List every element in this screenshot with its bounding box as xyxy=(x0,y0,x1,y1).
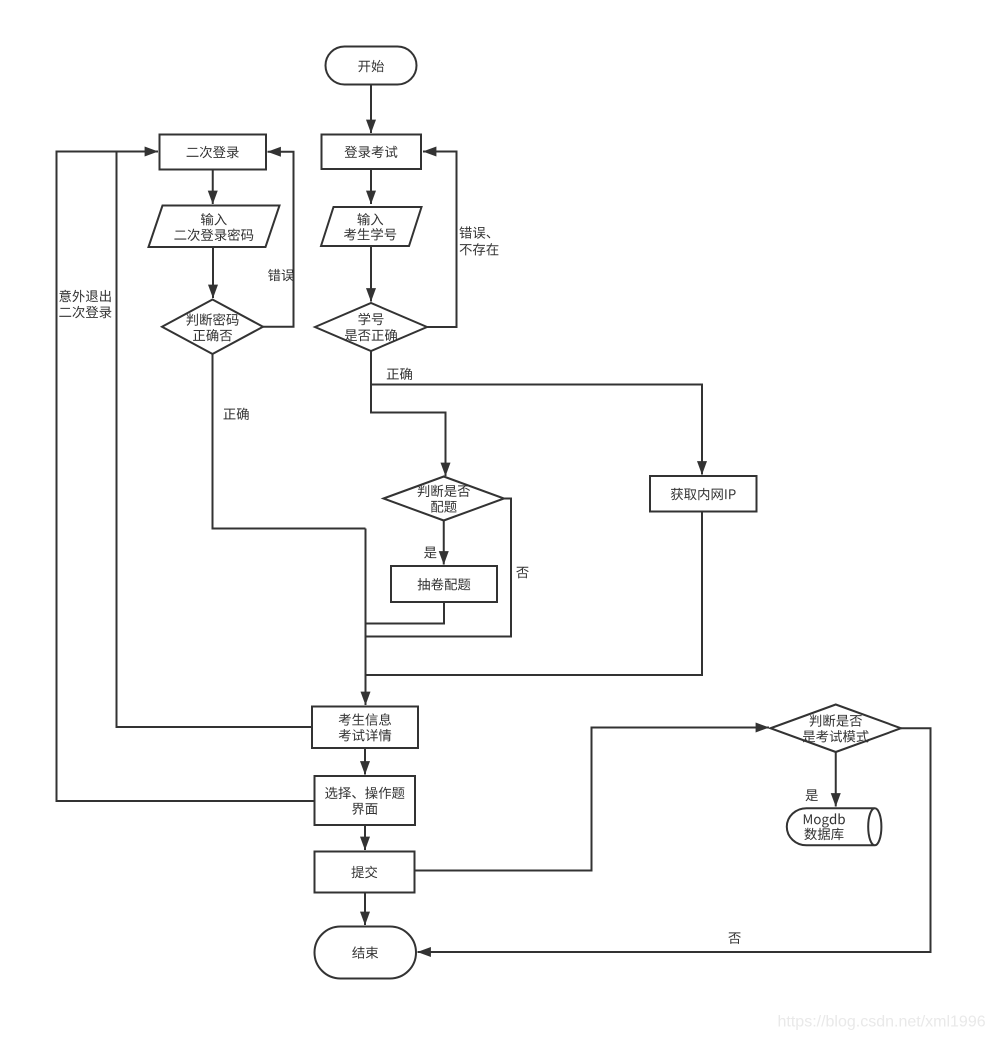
svg-text:https://blog.csdn.net/xml1996: https://blog.csdn.net/xml1996 xyxy=(778,1014,986,1031)
